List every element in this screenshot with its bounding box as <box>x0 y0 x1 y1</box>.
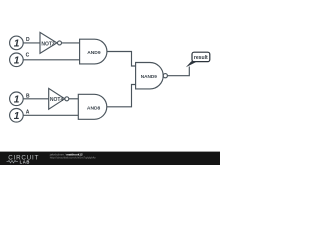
result flag pointer <box>186 61 198 67</box>
and gate AND8 <box>78 94 106 119</box>
footer logo resistor zigzag <box>7 161 19 163</box>
svg-text:NOT3: NOT3 <box>41 41 55 47</box>
source V_B (logic 1) <box>10 92 24 106</box>
source V_A (logic 1) <box>10 109 24 123</box>
svg-text:1: 1 <box>14 56 20 67</box>
svg-text:1: 1 <box>14 39 20 50</box>
result flag box <box>192 52 210 61</box>
svg-text:AND8: AND8 <box>87 106 101 112</box>
svg-text:D: D <box>26 37 30 43</box>
svg-text:B: B <box>26 93 30 99</box>
nand gate NAND9 <box>136 63 164 89</box>
svg-text:1: 1 <box>14 95 20 106</box>
NOT3 output bubble <box>58 41 62 45</box>
source V_C (logic 1) <box>10 53 24 67</box>
NOT4 output bubble <box>65 97 69 101</box>
wire C to AND9 input B <box>23 59 79 61</box>
wire NAND9 out to result flag <box>167 67 189 76</box>
inverter NOT3 <box>40 32 57 53</box>
svg-text:http://circuitlab.com/c/e5m7q/: http://circuitlab.com/c/e5m7q/qlqk4y <box>50 156 97 160</box>
svg-text:NOT4: NOT4 <box>50 97 64 103</box>
NAND9 output bubble <box>163 74 167 78</box>
wire NOT3 out to AND9 input A <box>62 42 80 44</box>
and gate AND9 <box>80 39 107 64</box>
wire A to AND8 input B <box>23 114 78 116</box>
svg-text:AND9: AND9 <box>87 50 101 56</box>
svg-text:1: 1 <box>14 111 20 122</box>
wire B to NOT4 input <box>23 98 49 100</box>
svg-text:A: A <box>26 109 30 115</box>
wire NOT4 out to AND8 input A <box>69 98 79 100</box>
wire AND9 out to NAND9 input A <box>107 52 136 67</box>
footer bar <box>0 152 220 165</box>
wire D to NOT3 input <box>23 42 40 44</box>
wire AND8 out to NAND9 input B <box>107 85 136 107</box>
svg-text:NAND9: NAND9 <box>141 74 158 79</box>
svg-text:C: C <box>26 53 30 59</box>
source V_D (logic 1) <box>10 36 24 50</box>
svg-text:result: result <box>194 55 208 61</box>
inverter NOT4 <box>49 88 65 109</box>
svg-text:LAB: LAB <box>20 159 30 164</box>
